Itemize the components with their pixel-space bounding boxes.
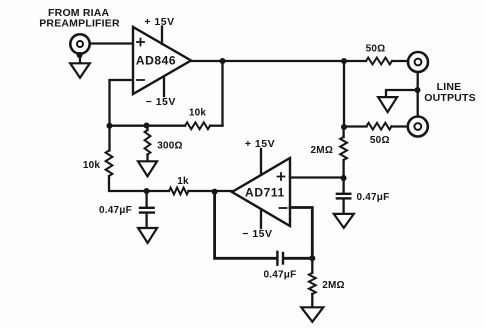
svg-text:0.47μF: 0.47μF xyxy=(264,269,297,280)
svg-text:50Ω: 50Ω xyxy=(366,43,386,54)
svg-text:0.47μF: 0.47μF xyxy=(357,192,390,203)
svg-text:0.47μF: 0.47μF xyxy=(99,205,132,216)
svg-text:50Ω: 50Ω xyxy=(370,135,390,146)
svg-text:300Ω: 300Ω xyxy=(157,141,183,152)
svg-text:2MΩ: 2MΩ xyxy=(311,145,334,156)
svg-text:PREAMPLIFIER: PREAMPLIFIER xyxy=(39,17,120,29)
svg-text:1k: 1k xyxy=(177,176,189,187)
svg-text:+ 15V: + 15V xyxy=(144,16,174,28)
svg-text:− 15V: − 15V xyxy=(242,228,272,240)
svg-text:OUTPUTS: OUTPUTS xyxy=(424,92,476,104)
svg-text:10k: 10k xyxy=(83,160,101,171)
svg-text:2MΩ: 2MΩ xyxy=(322,280,345,291)
svg-text:− 15V: − 15V xyxy=(146,96,176,108)
svg-text:AD846: AD846 xyxy=(136,54,176,68)
svg-text:AD711: AD711 xyxy=(245,186,285,200)
svg-text:+ 15V: + 15V xyxy=(245,138,275,150)
svg-text:10k: 10k xyxy=(189,108,207,119)
